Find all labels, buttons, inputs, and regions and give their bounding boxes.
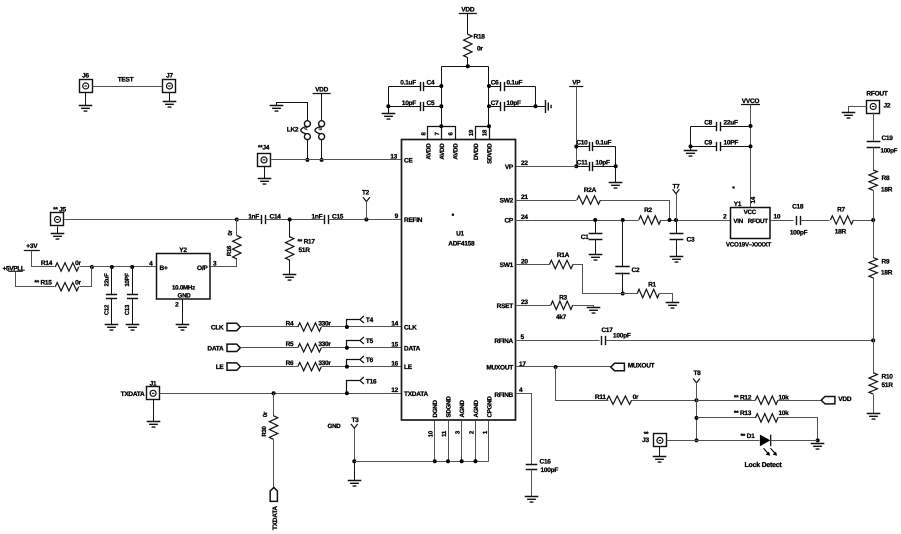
svg-text:12: 12: [391, 387, 398, 394]
svg-text:C10: C10: [576, 140, 588, 147]
svg-text:10pF: 10pF: [596, 160, 610, 167]
svg-text:R30: R30: [261, 425, 268, 436]
svg-text:DATA: DATA: [207, 345, 224, 352]
svg-text:R4: R4: [286, 320, 294, 327]
svg-text:A: A: [304, 126, 310, 130]
svg-text:R14: R14: [41, 260, 53, 267]
svg-text:VDD: VDD: [461, 6, 475, 13]
svg-text:DVDD: DVDD: [473, 143, 480, 160]
svg-text:Lock Detect: Lock Detect: [745, 461, 783, 469]
svg-text:J2: J2: [884, 103, 891, 110]
svg-text:0.1uF: 0.1uF: [596, 140, 612, 147]
svg-text:VDD: VDD: [315, 86, 329, 93]
svg-text:19: 19: [468, 129, 475, 136]
svg-text:CE: CE: [404, 157, 413, 164]
svg-text:100pF: 100pF: [881, 147, 898, 154]
svg-text:0r: 0r: [262, 411, 269, 417]
svg-text:R3: R3: [559, 294, 567, 301]
svg-text:T6: T6: [366, 357, 374, 364]
svg-text:C1: C1: [581, 234, 589, 241]
svg-text:10: 10: [428, 430, 435, 437]
svg-text:J7: J7: [166, 73, 173, 80]
svg-text:GND: GND: [178, 293, 192, 300]
svg-text:10pF: 10pF: [507, 100, 521, 107]
svg-text:20: 20: [521, 258, 528, 265]
svg-text:TXDATA: TXDATA: [404, 391, 428, 398]
svg-text:T2: T2: [362, 190, 370, 197]
svg-text:10.0MHz: 10.0MHz: [172, 284, 195, 291]
svg-text:T8: T8: [693, 370, 701, 377]
svg-text:1nF: 1nF: [248, 213, 259, 220]
svg-text:C13: C13: [124, 304, 131, 315]
svg-text:TXDATA: TXDATA: [121, 391, 145, 398]
svg-text:SW2: SW2: [500, 198, 514, 205]
svg-text:C18: C18: [792, 204, 804, 211]
svg-text:13: 13: [390, 154, 397, 161]
svg-text:100pF: 100pF: [613, 333, 631, 340]
svg-text:C3: C3: [687, 237, 695, 244]
svg-text:C6: C6: [491, 80, 499, 87]
svg-text:GND: GND: [328, 423, 342, 430]
svg-text:10pF: 10pF: [402, 100, 416, 107]
svg-text:R8: R8: [882, 175, 890, 182]
svg-text:REFIN: REFIN: [404, 217, 423, 224]
svg-text:** R12: ** R12: [734, 394, 752, 401]
svg-text:C16: C16: [540, 459, 552, 466]
svg-text:RFOUT: RFOUT: [748, 218, 769, 225]
svg-text:** D1: ** D1: [741, 433, 756, 440]
svg-text:TEST: TEST: [118, 77, 134, 84]
svg-text:C17: C17: [601, 327, 613, 334]
svg-text:AVDD: AVDD: [426, 143, 433, 160]
svg-text:17: 17: [519, 361, 526, 368]
svg-text:R2: R2: [644, 207, 652, 214]
svg-text:11: 11: [441, 430, 448, 437]
svg-text:MUXOUT: MUXOUT: [486, 365, 513, 372]
svg-text:RSET: RSET: [497, 303, 514, 310]
svg-text:100pF: 100pF: [541, 467, 559, 474]
svg-text:RFINB: RFINB: [494, 392, 513, 399]
svg-text:Y2: Y2: [179, 247, 187, 254]
svg-text:22uF: 22uF: [104, 273, 111, 287]
svg-text:LE: LE: [404, 364, 413, 371]
svg-text:SDGND: SDGND: [446, 396, 453, 418]
svg-text:330r: 330r: [318, 360, 331, 367]
svg-text:51R: 51R: [299, 247, 311, 254]
svg-text:18R: 18R: [881, 270, 893, 277]
svg-text:B: B: [318, 126, 324, 130]
svg-text:R10: R10: [882, 374, 894, 381]
svg-text:R11: R11: [595, 394, 606, 401]
svg-text:R2A: R2A: [584, 187, 597, 194]
svg-text:0.1uF: 0.1uF: [400, 80, 416, 87]
svg-text:VVCO: VVCO: [742, 98, 760, 105]
svg-text:C11: C11: [577, 160, 588, 167]
svg-text:B+: B+: [160, 265, 168, 272]
svg-text:** R13: ** R13: [734, 410, 752, 417]
svg-text:R9: R9: [882, 259, 890, 266]
svg-text:CLK: CLK: [404, 325, 417, 332]
svg-text:0.1uF: 0.1uF: [507, 80, 523, 87]
svg-text:18R: 18R: [881, 187, 893, 194]
svg-text:J3: J3: [642, 437, 649, 444]
svg-text:18: 18: [481, 129, 488, 136]
svg-text:DATA: DATA: [404, 345, 421, 352]
svg-text:0r: 0r: [75, 279, 81, 286]
svg-text:T5: T5: [366, 338, 374, 345]
svg-text:SW1: SW1: [500, 262, 514, 269]
svg-text:22uF: 22uF: [724, 119, 738, 126]
svg-text:TXDATA: TXDATA: [272, 506, 279, 530]
svg-text:4k7: 4k7: [556, 314, 567, 321]
svg-text:Y1: Y1: [734, 201, 742, 208]
svg-text:CLK: CLK: [211, 325, 224, 332]
svg-text:R18: R18: [474, 34, 486, 41]
svg-text:22: 22: [521, 160, 528, 167]
svg-text:O/P: O/P: [197, 265, 208, 272]
svg-text:R5: R5: [286, 341, 294, 348]
svg-text:U1: U1: [456, 231, 464, 238]
svg-text:DGND: DGND: [432, 400, 439, 418]
svg-text:**J4: **J4: [258, 145, 270, 152]
svg-text:SDVDD: SDVDD: [487, 143, 494, 164]
svg-text:AVDD: AVDD: [439, 143, 446, 160]
svg-text:T3: T3: [351, 417, 359, 424]
svg-text:R1: R1: [648, 282, 656, 289]
svg-text:CPGND: CPGND: [486, 396, 493, 418]
svg-text:10: 10: [774, 214, 781, 221]
svg-text:R7: R7: [837, 207, 845, 214]
svg-text:C9: C9: [704, 140, 712, 147]
svg-text:R16: R16: [226, 245, 233, 256]
svg-text:15: 15: [391, 342, 398, 349]
svg-text:100pF: 100pF: [790, 230, 808, 237]
svg-text:C19: C19: [882, 135, 894, 142]
svg-text:VDD: VDD: [838, 396, 852, 403]
svg-text:AVDD: AVDD: [453, 143, 460, 160]
svg-text:10PF: 10PF: [124, 273, 131, 287]
svg-text:VIN: VIN: [733, 218, 743, 225]
svg-text:10k: 10k: [778, 410, 789, 417]
svg-text:C12: C12: [104, 304, 111, 315]
svg-text:51R: 51R: [882, 382, 894, 389]
svg-text:+3V: +3V: [26, 243, 38, 250]
svg-text:VCO19V–XXXXT: VCO19V–XXXXT: [726, 242, 772, 249]
svg-text:VP: VP: [572, 80, 581, 87]
svg-text:C4: C4: [427, 80, 435, 87]
svg-text:C8: C8: [704, 119, 712, 126]
svg-text:J6: J6: [82, 73, 89, 80]
svg-text:T4: T4: [366, 317, 374, 324]
svg-text:VP: VP: [505, 164, 514, 171]
svg-text:0r: 0r: [227, 229, 234, 235]
svg-text:MUXOUT: MUXOUT: [628, 363, 655, 370]
svg-text:R6: R6: [286, 360, 294, 367]
svg-text:AGND: AGND: [459, 400, 466, 418]
svg-text:23: 23: [521, 299, 528, 306]
svg-text:1nF: 1nF: [311, 213, 322, 220]
svg-text:14: 14: [391, 321, 398, 328]
svg-text:14: 14: [750, 196, 757, 203]
svg-text:10PF: 10PF: [724, 140, 739, 147]
svg-text:** R15: ** R15: [34, 279, 52, 286]
svg-text:C14: C14: [270, 213, 282, 220]
svg-text:AGND: AGND: [473, 400, 480, 418]
svg-text:24: 24: [521, 214, 528, 221]
svg-text:ADF4158: ADF4158: [448, 240, 475, 247]
svg-text:VCC: VCC: [744, 209, 757, 216]
svg-text:RFOUT: RFOUT: [866, 91, 887, 98]
svg-text:21: 21: [521, 194, 528, 201]
svg-text:18R: 18R: [835, 229, 847, 236]
svg-text:R1A: R1A: [557, 252, 570, 259]
svg-text:CP: CP: [504, 218, 513, 225]
svg-text:RFINA: RFINA: [494, 338, 513, 345]
svg-text:LK2: LK2: [287, 127, 299, 134]
svg-text:** R17: ** R17: [298, 239, 316, 246]
svg-text:LE: LE: [216, 364, 225, 371]
svg-text:T16: T16: [366, 378, 377, 385]
svg-text:C5: C5: [427, 100, 435, 107]
svg-text:16: 16: [391, 360, 398, 367]
svg-text:C7: C7: [491, 100, 499, 107]
svg-text:0r: 0r: [477, 46, 483, 53]
svg-text:C2: C2: [632, 267, 640, 274]
